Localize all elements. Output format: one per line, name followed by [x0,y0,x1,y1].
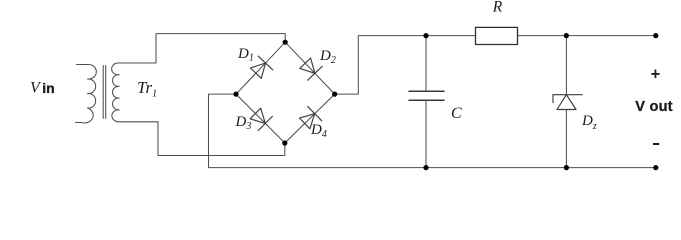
node zener bottom junction [564,165,569,170]
capacitor C bottom lead [425,100,427,167]
node bridge top junction [283,40,288,45]
svg-text:C: C [451,105,462,122]
top rail right of resistor [518,35,656,37]
wire bridge left to bottom rail [209,94,237,167]
bridge edge top-right (D2 wire) [285,42,335,94]
bridge edge left-top (D1 wire) [236,42,285,94]
node bridge left junction [233,92,238,97]
diode D4 triangle [300,114,315,129]
diode D2 triangle [300,58,315,73]
wire secondary-top to bridge top [156,34,285,63]
svg-text:+: + [651,66,661,84]
diode D3 bar [258,116,273,131]
capacitor C plates [409,91,444,100]
zener Dz triangle [557,95,576,110]
diode D3 triangle [250,108,265,123]
zener Dz top lead [565,36,567,95]
diode D1 triangle [250,63,265,78]
node zener top junction [564,33,569,38]
zener Dz bottom lead [565,110,567,168]
node capacitor top junction [423,33,428,38]
bottom rail [209,167,656,169]
capacitor C top lead [425,36,427,92]
resistor R box [476,27,518,44]
diode D2 bar [307,66,322,81]
svg-text:in: in [42,80,54,96]
transformer core [103,66,106,119]
diode D1 bar [258,56,273,70]
label - [653,143,659,145]
node + output terminal [653,33,658,38]
node capacitor bottom junction [423,165,428,170]
transformer Tr1 primary coil [76,65,97,123]
wire bridge right to top rail [335,36,476,95]
node - output terminal [653,165,658,170]
svg-text:R: R [492,0,503,15]
bridge edge bottom-right (D4 wire) [285,94,335,143]
wire secondary-bottom to bridge bottom [158,122,285,156]
bridge edge left-bottom (D3 wire) [236,94,285,143]
node bridge right junction [332,92,337,97]
svg-text:V out: V out [635,99,673,115]
diode D4 bar [307,106,322,121]
node bridge bottom junction [282,140,287,145]
zener Dz cathode bar with hook [553,95,582,103]
transformer Tr1 secondary coil [112,63,158,122]
